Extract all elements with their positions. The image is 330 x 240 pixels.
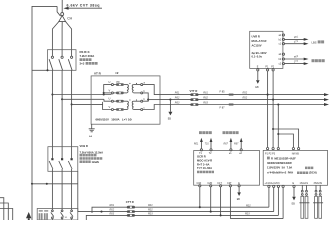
svg-text:3×3: 3×3 — [80, 62, 85, 66]
wire C1R drop — [199, 187, 201, 207]
svg-text:R03: R03 — [110, 212, 115, 215]
svg-text:U: U — [109, 80, 111, 84]
svg-text:EB: EB — [292, 202, 296, 205]
label WH text — [267, 156, 317, 174]
wire C2R drop — [210, 187, 212, 212]
VT primary terminal U1 — [111, 84, 113, 86]
svg-text:3S3L3S: 3S3L3S — [314, 182, 323, 185]
svg-text:F 87: F 87 — [220, 106, 226, 109]
watthour meter WH box — [263, 150, 327, 185]
svg-text:T×T 10~60A: T×T 10~60A — [197, 166, 212, 170]
label OCR text — [197, 154, 214, 173]
node VT secondary common — [147, 99, 149, 101]
VT2 secondary terminal u — [134, 100, 141, 102]
svg-text:V: V — [109, 88, 111, 92]
svg-text:R63: R63 — [203, 102, 208, 105]
wire phase T down to VCB — [71, 70, 73, 158]
VCB pole T — [68, 158, 72, 220]
OCR top terminal e1 — [230, 149, 232, 151]
svg-text:R67: R67 — [234, 143, 239, 146]
svg-text:MUA-A7V-R: MUA-A7V-R — [252, 39, 267, 43]
wire VT tap R — [52, 94, 111, 96]
svg-text:12a2b: 12a2b — [92, 160, 100, 164]
fuse CTT C — [127, 214, 135, 217]
WH top terminal NA — [292, 148, 294, 150]
UVR bottom terminal E — [257, 69, 259, 71]
wire earth rail continues down — [31, 184, 33, 220]
wire CT secondary C — [86, 215, 278, 220]
svg-text:(DCH): (DCH) — [309, 170, 317, 174]
svg-text:U: U — [109, 97, 111, 101]
OCR top terminal T2 — [210, 149, 212, 151]
VT fuse row3 — [116, 100, 124, 103]
VCB pole S — [59, 158, 63, 220]
svg-text:×2: ×2 — [115, 71, 119, 75]
wire VT row3 branch — [104, 99, 111, 101]
ground OCR E — [238, 187, 240, 193]
WH bottom terminal t2 — [273, 185, 275, 187]
label VCB ratings — [80, 144, 104, 164]
VT2 polarity dots — [129, 99, 130, 100]
UVR terminal c1 — [282, 43, 284, 45]
wire UVR P1 down to WH — [267, 71, 269, 148]
svg-text:VCB R: VCB R — [80, 144, 88, 148]
svg-text:V: V — [109, 105, 111, 109]
wire VT row1 branch — [103, 93, 105, 95]
svg-text:R02: R02 — [148, 209, 153, 212]
svg-text:7.2kV 600A 12.5kA: 7.2kV 600A 12.5kA — [80, 150, 104, 154]
svg-text:R ME110SSR-4A2F: R ME110SSR-4A2F — [271, 156, 296, 160]
svg-text:R52: R52 — [243, 92, 248, 95]
ground UVR E — [257, 71, 259, 81]
overcurrent relay OCR box — [194, 151, 260, 186]
wire UVR c2 output — [285, 63, 306, 65]
wire CT secondary B — [78, 211, 274, 213]
svg-text:1S1L1S: 1S1L1S — [300, 182, 309, 185]
wire CT secondary D — [230, 218, 283, 220]
UVR terminal a2 — [282, 53, 284, 55]
svg-text:7.2kV 200A: 7.2kV 200A — [80, 54, 95, 58]
fuse CTT B — [127, 210, 135, 213]
wire fan-out mid phase — [61, 22, 63, 57]
wire VT secondary v1-u2 join — [143, 93, 149, 101]
disconnect switch DS pole R — [49, 56, 53, 70]
CT aux bars group1 — [39, 213, 41, 219]
wire phase S down to VCB — [61, 70, 63, 158]
svg-text:P1 P2 P3: P1 P2 P3 — [265, 153, 276, 156]
wire NB branch — [272, 128, 274, 130]
wire VT secondary line3 — [160, 104, 325, 106]
svg-text:C2T: C2T — [227, 182, 232, 185]
wire UVR P2 down to WH — [272, 71, 274, 148]
svg-text:R02: R02 — [246, 204, 251, 207]
svg-text:n°440h/kW·h×2 PAH: n°440h/kW·h×2 PAH — [267, 170, 293, 174]
wire VT secondary v2 to line3 — [143, 105, 160, 110]
svg-text:T01: T01 — [205, 143, 210, 146]
ground VT case — [91, 124, 93, 129]
undervoltage relay UVR box — [250, 31, 283, 68]
svg-text:R61: R61 — [203, 92, 208, 95]
VCB pole R — [49, 158, 53, 220]
wire incoming service drop — [61, 0, 63, 13]
svg-text:R02: R02 — [110, 209, 115, 212]
svg-text:R01: R01 — [110, 204, 115, 207]
VT primary terminal V2 — [111, 109, 113, 111]
svg-text:AC110V: AC110V — [252, 43, 262, 47]
VT primary terminal V1 — [111, 92, 113, 94]
node DS enclosure earth — [46, 69, 48, 71]
svg-text:3Φ3W/1Φ3W/1Φ2W: 3Φ3W/1Φ3W/1Φ2W — [267, 161, 292, 165]
disconnect switch DS pole S — [59, 56, 63, 70]
svg-text:R03: R03 — [245, 213, 250, 216]
wire VT secondary line2 — [160, 99, 325, 101]
OCR top terminal e2 — [240, 149, 242, 151]
node VT tap phase S — [61, 98, 63, 100]
OCR bottom terminal C2R — [210, 185, 212, 187]
svg-text:C2R: C2R — [207, 182, 212, 185]
wire VT tap T — [72, 102, 103, 105]
svg-text:F 85: F 85 — [220, 91, 226, 94]
wire t4 to bus D — [282, 188, 284, 219]
VT1 secondary winding — [132, 85, 133, 93]
node P3 line3 — [277, 103, 279, 105]
svg-text:CH: CH — [67, 17, 72, 21]
OCR bottom terminal C1T — [220, 185, 222, 187]
test terminal block 1 — [299, 185, 309, 218]
svg-text:R01: R01 — [148, 204, 153, 207]
svg-text:110V/220V 5A 7.0A: 110V/220V 5A 7.0A — [267, 166, 292, 170]
wire OCR T2 up arrow — [210, 141, 212, 149]
wire bottom-left stub 3 — [0, 209, 13, 221]
UVR bottom terminal P1 — [267, 69, 269, 71]
svg-text:R61: R61 — [175, 92, 180, 95]
VT1 polarity dots — [129, 83, 130, 84]
svg-text:EB: EB — [168, 118, 172, 121]
VT2 primary winding — [127, 101, 128, 109]
VT2 secondary winding — [132, 101, 133, 109]
OCR bottom terminal C2T — [229, 185, 231, 187]
svg-text:C1T: C1T — [217, 182, 222, 185]
OCR bottom terminal C1R — [199, 185, 201, 187]
svg-text:EB: EB — [255, 86, 259, 89]
WH bottom terminal t4 — [282, 185, 284, 187]
wire VCB enclosure earth — [77, 171, 79, 211]
node line2 earth tap — [169, 99, 171, 101]
svg-text:3φ 90~100V: 3φ 90~100V — [252, 51, 267, 55]
WH bottom terminal t3 — [277, 185, 279, 187]
label VCB trip annunciator — [199, 131, 202, 134]
svg-text:EB: EB — [237, 198, 241, 201]
wire VT secondary line1 — [160, 94, 325, 96]
wire OCR T1 up arrow — [200, 141, 202, 149]
node B — [100, 211, 102, 213]
wire t2 to bus B — [273, 188, 275, 212]
disconnect switch DS box — [48, 50, 77, 71]
wire C1T drop — [220, 187, 222, 216]
svg-text:LBS: LBS — [312, 40, 317, 44]
svg-text:CTT R: CTT R — [126, 200, 134, 204]
test terminal block 2 — [313, 185, 323, 218]
wire t3 to bus C — [277, 188, 279, 216]
wire UVR b2 output — [285, 58, 306, 60]
CT link phase S — [61, 210, 64, 219]
svg-text:6600/110V 100VA L×Y 1Φ: 6600/110V 100VA L×Y 1Φ — [96, 118, 133, 122]
VT1 secondary terminal v — [134, 92, 141, 94]
svg-text:C1R: C1R — [197, 182, 202, 185]
wire bottom-left stub 2 — [0, 203, 8, 220]
wire UVR b1 output — [285, 38, 306, 40]
svg-text:R×T 3~6A: R×T 3~6A — [197, 162, 209, 166]
ground EB from line2 — [169, 100, 171, 112]
wire earth rail to cable head — [57, 6, 60, 16]
VT1 secondary terminal u — [134, 84, 141, 86]
wire annunciator arrow 2 — [240, 141, 242, 149]
wire bottom-left stub 1 — [0, 198, 4, 220]
label voltmeter ammeter annunciator — [223, 131, 226, 134]
svg-text:R01: R01 — [194, 143, 199, 146]
svg-text:MOC-A1V-R: MOC-A1V-R — [197, 158, 212, 162]
wire line3 down to WH P3 — [277, 105, 279, 148]
svg-text:R03: R03 — [148, 212, 153, 215]
wire UVR c1 output — [285, 43, 306, 45]
svg-text:6.6kV CVT 38sq: 6.6kV CVT 38sq — [67, 3, 100, 7]
UVR terminal b1 — [282, 38, 284, 40]
UVR terminal c2 — [282, 63, 284, 65]
node VT tap phase T — [71, 103, 73, 105]
VT fuse row4 — [116, 108, 124, 111]
svg-text:R52: R52 — [243, 97, 248, 100]
wire CT secondary A — [92, 207, 269, 213]
VT2 secondary terminal v — [134, 109, 141, 111]
svg-text:NA NB: NA NB — [292, 153, 300, 156]
CT link phase R — [51, 210, 54, 219]
voltage transformer VT box — [91, 76, 160, 124]
wire earth rail top — [32, 6, 57, 183]
wire VT tap S — [62, 98, 104, 100]
wire C2T drop — [229, 187, 231, 219]
svg-text:R63: R63 — [175, 102, 180, 105]
wire earth rail tap to DS enclosure — [32, 69, 48, 71]
svg-text:+C1C2+C2C3: +C1C2+C2C3 — [265, 182, 281, 185]
OCR bottom terminal E — [238, 185, 240, 187]
vacuum circuit breaker VCB box — [48, 147, 78, 172]
CT aux bars group2 — [44, 213, 46, 219]
WH bottom terminal E — [293, 185, 295, 187]
OCR top terminal T1 — [200, 149, 202, 151]
node P2 line2 — [272, 99, 274, 101]
CT aux marks — [39, 210, 43, 211]
wire leader arrow for cable spec — [67, 7, 103, 9]
WH bottom terminal t1 — [268, 185, 270, 187]
WH top terminal P3 — [277, 148, 279, 150]
svg-text:R62: R62 — [203, 97, 208, 100]
wire annunciator arrow 1 — [230, 141, 232, 149]
VT fuse row2 — [116, 92, 124, 95]
UVR terminal b2 — [282, 58, 284, 60]
wire NA branch — [277, 133, 279, 135]
fuse VTT line3 — [190, 103, 198, 106]
wire fan-out left phase — [52, 22, 58, 57]
arrow incoming feed marker — [26, 212, 31, 218]
svg-text:VT R: VT R — [94, 72, 102, 76]
disconnect switch DS pole T — [68, 56, 72, 70]
svg-text:0.1~5.0s: 0.1~5.0s — [252, 54, 263, 58]
wire VT secondary u1 to line1 — [143, 85, 160, 95]
svg-text:VTT R: VTT R — [190, 89, 198, 93]
current transformer box — [37, 209, 78, 221]
label UVR text — [252, 35, 267, 59]
wire phase R down to VCB — [51, 70, 53, 158]
WH top terminal NB — [298, 148, 300, 150]
cable head CH — [61, 13, 64, 16]
label DS ratings — [80, 50, 98, 65]
wire VT row4 branch — [103, 104, 112, 109]
WH top terminal P2 — [272, 148, 274, 150]
wire fan-out right phase — [66, 22, 72, 57]
svg-text:R67: R67 — [224, 143, 229, 146]
ground WH E — [293, 188, 295, 197]
svg-text:UVR R: UVR R — [252, 35, 260, 39]
node P1 line1 — [267, 94, 269, 96]
VT1 primary winding — [127, 85, 128, 93]
CT link phase T — [70, 210, 73, 219]
node VT tap phase R — [51, 93, 53, 95]
wire VT row2 branch — [103, 92, 105, 94]
UVR terminal a1 — [282, 34, 284, 36]
fuse VTT line2 — [190, 98, 198, 101]
svg-text:R62: R62 — [175, 97, 180, 100]
wire t1 to bus A — [268, 188, 270, 208]
UVR bottom terminal P2 — [272, 69, 274, 71]
VT primary terminal U2 — [111, 100, 113, 102]
label undervoltage indication — [312, 59, 315, 62]
WH top terminal P1 — [267, 148, 269, 150]
node earth rail bottom — [31, 183, 33, 185]
